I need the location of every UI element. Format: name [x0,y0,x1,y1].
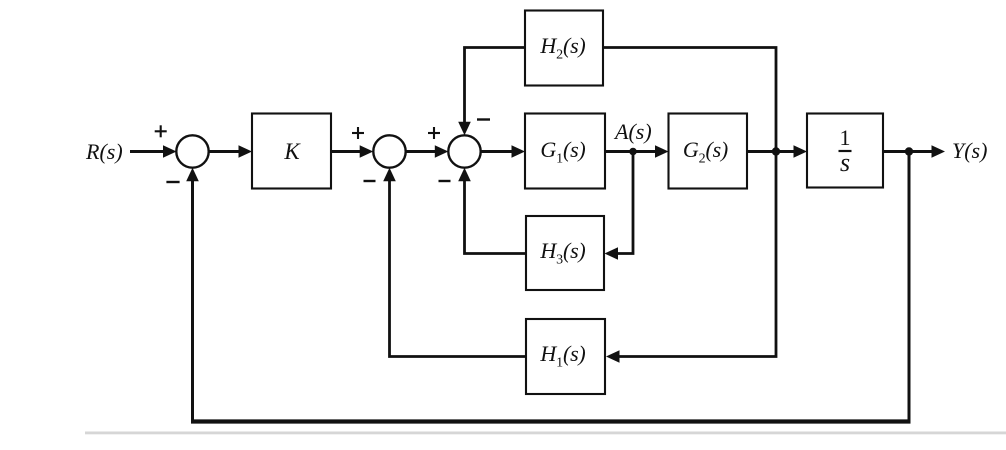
wire: outer feedback up to S1 bottom input [186,168,199,422]
node A junction dot [629,148,637,156]
block G2 [669,114,748,189]
wire: G1 to G2 through node A [605,145,669,158]
wire: H1 output to S2 bottom input [383,168,526,357]
node after G2 (feedback tap) [772,147,780,155]
minus sign at S3 top input [477,118,490,120]
label R(s) [85,139,123,164]
plus sign at S3 input [428,127,440,139]
wire: S3 to G1 [481,145,525,158]
block H2 [525,11,603,86]
svg-text:A(s): A(s) [613,119,652,144]
label A(s) [613,119,652,144]
svg-text:K: K [283,139,301,164]
wire: H2 output to S3 top input [458,48,525,136]
minus sign at S1 feedback input [166,181,179,183]
wire: K to summer S2 [331,145,373,158]
minus sign at S3 bottom input [439,180,451,182]
label Y(s) [952,138,987,163]
wire: tap node down to H1 input [606,153,776,363]
plus sign at S2 input [352,127,364,139]
plus sign at S1 input [155,125,167,137]
wire: integrator to output Y(s) [883,145,945,158]
node after integrator (outer feedback tap) [905,147,913,155]
svg-text:1: 1 [840,125,851,150]
faint scan streak [85,432,1006,435]
minus sign at S2 feedback input [364,180,376,182]
summing junction S2 [373,135,405,167]
wire: S1 to K [209,145,253,158]
wire: tap node up to H2 input [603,48,776,152]
wire: outer feedback bottom run [191,419,911,423]
wire: G2 to integrator through tap node [747,145,807,158]
summing junction S3 [448,135,480,167]
block G1 [525,114,605,189]
wire: S2 to summer S3 [406,145,449,158]
block 1/s integrator [807,114,883,188]
block H3 [526,216,604,290]
wire: outer feedback vertical from output node [908,153,911,422]
svg-text:Y(s): Y(s) [952,138,987,163]
summing junction S1 [176,135,208,167]
block H1 [526,319,605,394]
svg-text:R(s): R(s) [85,139,123,164]
wire: H3 output to S3 bottom input [458,168,526,254]
wire: R(s) input to summer S1 [130,145,177,158]
svg-text:s: s [840,148,850,177]
wire: node A down to H3 input [605,153,634,260]
block K [252,114,331,189]
